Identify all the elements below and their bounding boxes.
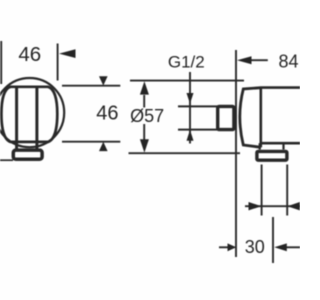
dim outlet thread: dimension line — [245, 205, 300, 207]
label G1/2: arrow pointing down — [187, 93, 194, 104]
label G1/2: arrow pointing up — [187, 130, 194, 141]
svg-text:G1/2: G1/2 — [168, 53, 205, 72]
dim 84: dimension line segment — [251, 59, 268, 61]
dim 84: arrow pointing left at wall line — [237, 56, 252, 64]
label G1/2: leader line — [189, 72, 191, 144]
dim 46 right: lower arrow pointing up — [99, 142, 108, 151]
front view: cover plate 46x46 rounded square — [1, 87, 57, 142]
dim 46 right: bottom extension line — [62, 141, 120, 143]
dim O57: bottom extension line — [129, 152, 241, 154]
front view: cropped leader line at lower left — [0, 159, 13, 161]
dim outlet thread: arrow pointing left — [287, 202, 299, 210]
front view: holder left vertical line — [15, 87, 18, 149]
side view: body top line — [261, 86, 300, 89]
side view: inlet stub bottom line — [178, 129, 218, 131]
dim O57: dimension line segments — [143, 95, 145, 108]
dim O57: arrow pointing up — [140, 81, 149, 94]
side view: escutcheon profile — [240, 88, 261, 148]
side view: outlet neck left line — [259, 143, 261, 149]
side view: stub union nut — [218, 106, 234, 129]
side view: outlet nut — [257, 151, 287, 160]
dim outlet thread: arrow pointing right — [249, 202, 262, 210]
svg-text:Ø57: Ø57 — [130, 106, 164, 126]
side view: body bottom line — [261, 142, 300, 145]
front view: escutcheon circle Ø57 — [0, 78, 64, 147]
side view: inlet stub top line — [178, 105, 218, 107]
svg-text:46: 46 — [96, 103, 118, 125]
dim 46 right: top extension line — [62, 85, 120, 87]
dim 46 top: left extension line — [0, 41, 2, 84]
dim 46 top: right extension line — [57, 44, 59, 81]
dim 30: arrow pointing left at centre line — [274, 243, 287, 251]
dim 30: right tail line — [287, 246, 301, 248]
dim outlet thread: left extension line — [261, 165, 263, 216]
dim O57: arrow pointing down — [140, 139, 149, 152]
front view: holder right vertical line — [35, 87, 38, 149]
side view: outlet neck right line — [282, 143, 284, 149]
dim 30: arrow pointing right at wall line — [228, 243, 237, 251]
dim 30: centre extension line — [272, 217, 274, 263]
front view: outlet nut — [13, 150, 42, 159]
dim O57: top extension line — [130, 80, 244, 82]
svg-text:84: 84 — [279, 51, 299, 71]
dim 46 top: arrow pointing left — [59, 49, 76, 58]
svg-text:30: 30 — [245, 237, 265, 257]
dim 30: left tail line — [219, 246, 229, 248]
dim outlet thread: right extension line — [286, 165, 288, 216]
svg-text:46: 46 — [18, 43, 41, 66]
side view: wall reference line — [235, 50, 237, 257]
dim 46 right: upper arrow pointing down — [99, 76, 108, 85]
